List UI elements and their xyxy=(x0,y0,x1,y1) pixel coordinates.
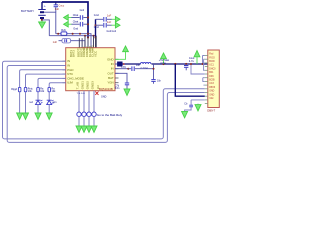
IC right pin names xyxy=(107,57,114,84)
wire left pin 3 to R col1 xyxy=(20,70,66,88)
resistor R2 col2 xyxy=(24,87,33,112)
svg-text:UC3: UC3 xyxy=(209,83,214,85)
inductor L1 xyxy=(140,62,151,70)
ground arrow tp2 xyxy=(81,126,87,132)
svg-text:T_AB: T_AB xyxy=(75,82,79,89)
svg-text:BATTERY: BATTERY xyxy=(21,9,34,13)
connector pin labels xyxy=(209,54,216,100)
wire thick drop to connector bottom xyxy=(175,64,205,96)
svg-text:Rxd: Rxd xyxy=(209,54,214,56)
svg-text:BCIB: BCIB xyxy=(209,80,215,82)
svg-text:IN: IN xyxy=(111,67,114,71)
wire main +5V rail xyxy=(152,63,208,65)
connector X1 DB9 body xyxy=(208,50,220,108)
battery B1 xyxy=(21,2,47,21)
svg-text:GND: GND xyxy=(209,94,214,96)
capacitor Cvc xyxy=(151,79,161,83)
wire left pin 1 loop A xyxy=(3,61,205,139)
ground arrow under battery xyxy=(41,21,43,22)
ground arrow tp3 xyxy=(86,126,92,132)
svg-text:BAT: BAT xyxy=(108,76,114,80)
svg-text:T G G G: T G G G xyxy=(77,93,86,95)
svg-text:BAT2: BAT2 xyxy=(72,50,76,57)
svg-text:2.2UH: 2.2UH xyxy=(140,66,147,70)
svg-text:VCC: VCC xyxy=(93,51,97,57)
svg-text:1uF: 1uF xyxy=(107,13,112,17)
power arrow GND left row2 xyxy=(68,23,72,25)
no-connect X pin xyxy=(95,92,98,95)
svg-text:Gnd: Gnd xyxy=(112,30,117,33)
wire top rail VBAT xyxy=(42,2,88,38)
svg-text:Rpgd: Rpgd xyxy=(11,88,17,91)
capacitor Cbat2 xyxy=(71,20,88,31)
connector pin stubs xyxy=(205,56,208,104)
ground arrow col4 xyxy=(46,113,52,119)
bus2 xyxy=(95,19,97,37)
power arrow right row2 xyxy=(112,24,116,26)
diode D3 xyxy=(115,63,118,65)
wire connector row 62.9 xyxy=(203,63,206,64)
svg-text:1uF: 1uF xyxy=(107,20,112,24)
ground arrow col3 xyxy=(35,113,41,119)
node row2 xyxy=(49,35,96,37)
wire connector rows 77.7 81.4 xyxy=(203,78,205,82)
svg-text:BCID: BCID xyxy=(209,61,215,63)
wire connector aux vertical 2 xyxy=(204,59,205,70)
op IC U1 BQ51013B body xyxy=(66,48,115,91)
svg-text:Vdd: Vdd xyxy=(209,98,214,100)
svg-text:Cbat: Cbat xyxy=(73,20,79,24)
svg-text:IN: IN xyxy=(111,62,114,66)
wire connector aux vertical 1 xyxy=(203,56,205,65)
svg-text:Cvcc: Cvcc xyxy=(58,3,64,7)
svg-text:4.7u: 4.7u xyxy=(189,59,195,63)
ground arrow tp4 xyxy=(91,126,97,132)
wire battery tap to C9 column xyxy=(44,12,56,34)
wire C7d row xyxy=(115,73,127,82)
svg-text:OUT: OUT xyxy=(107,71,113,75)
node row1 xyxy=(56,34,91,48)
svg-text:BF1: BF1 xyxy=(209,72,214,74)
svg-text:YGN: YGN xyxy=(107,81,113,85)
ground arrow G2 xyxy=(197,103,199,106)
svg-text:GND3: GND3 xyxy=(90,81,94,89)
svg-text:Gnd: Gnd xyxy=(94,25,99,29)
svg-text:5.6n: 5.6n xyxy=(115,87,120,90)
power arrow at Cout xyxy=(196,57,198,64)
wire D3 to L1 xyxy=(122,63,140,65)
capacitor Cvb xyxy=(53,39,85,48)
svg-text:ILIM: ILIM xyxy=(67,81,73,85)
LED D1 xyxy=(29,100,42,113)
wire 10n row xyxy=(115,68,128,70)
resistor R4 col4 xyxy=(48,87,56,99)
svg-text:Gnd: Gnd xyxy=(94,13,99,17)
test point TP2 xyxy=(82,112,86,116)
svg-text:FIGO: FIGO xyxy=(209,57,215,59)
power arrow VBAT left row1 xyxy=(68,17,72,19)
svg-text:BQ51013B: BQ51013B xyxy=(99,87,113,91)
IC left pin names xyxy=(67,59,84,84)
wire connector aux vertical 3 xyxy=(191,64,205,74)
ground arrow col1 xyxy=(17,113,23,119)
svg-text:0.5A: 0.5A xyxy=(160,61,166,65)
svg-text:DB9-T: DB9-T xyxy=(207,109,215,113)
wire bottom pins to test points xyxy=(79,91,94,112)
wire left pin 5 to R col3 xyxy=(38,78,66,87)
wire drop to Cvc xyxy=(153,64,155,79)
ground arrow G1 xyxy=(182,111,188,117)
svg-text:GND2: GND2 xyxy=(85,81,89,89)
svg-text:Go to the Batt Rely: Go to the Batt Rely xyxy=(97,113,123,117)
svg-text:10n: 10n xyxy=(157,79,162,82)
LED D2 xyxy=(47,100,57,113)
wire connector row 85.1 stub xyxy=(204,84,205,86)
wire battery minus right then down xyxy=(42,20,49,36)
wire top pin stubs xyxy=(78,38,80,48)
wire left pin 2 loop B xyxy=(7,66,205,143)
IC bottom pin names (rotated) xyxy=(75,81,100,89)
svg-text:UC1: UC1 xyxy=(209,65,214,67)
test point TP4 xyxy=(92,112,96,116)
power arrow +5V max xyxy=(163,59,165,65)
svg-text:GND: GND xyxy=(107,57,113,61)
svg-text:FBO3: FBO3 xyxy=(209,87,216,89)
capacitor Cbat1 xyxy=(71,13,88,20)
wire testpoints to ground xyxy=(79,116,94,125)
resistor Rvb xyxy=(61,28,67,35)
IC top pin names (rotated) xyxy=(69,45,98,57)
svg-text:GND: GND xyxy=(101,96,107,99)
ground arrow under C7d xyxy=(124,89,130,95)
power arrow +5V at IC right pin1 xyxy=(115,52,126,60)
ground arrow tp1 xyxy=(76,126,82,132)
svg-text:DF9: DF9 xyxy=(209,76,214,78)
ground arrow col2 xyxy=(23,113,29,119)
resistor R1 col1 xyxy=(11,87,21,112)
capacitor C10n xyxy=(128,64,153,71)
svg-text:1uF: 1uF xyxy=(55,7,60,11)
IC right pin stubs xyxy=(115,59,119,82)
capacitor Cb bottom right xyxy=(184,100,205,112)
svg-text:GND: GND xyxy=(209,91,214,93)
capacitor Cout xyxy=(184,56,195,70)
svg-text:Gnd: Gnd xyxy=(73,26,78,30)
capacitor C7d xyxy=(115,83,130,90)
power arrow right row1 xyxy=(112,18,116,20)
capacitor C1d xyxy=(94,13,112,21)
svg-text:1uF: 1uF xyxy=(53,40,58,44)
wire left pin 4 to R col2 xyxy=(26,74,66,87)
resistor R3 col3 xyxy=(37,87,45,99)
IC left pin stubs xyxy=(63,61,66,82)
test point TP3 xyxy=(87,112,91,116)
test point TP1 xyxy=(77,112,81,116)
svg-text:GND1: GND1 xyxy=(80,81,84,89)
svg-text:10n: 10n xyxy=(136,64,141,67)
svg-text:Cbat: Cbat xyxy=(73,13,79,17)
capacitor C2d xyxy=(94,20,112,29)
junction battery minus xyxy=(41,19,43,21)
svg-text:3.3V: 3.3V xyxy=(121,66,126,69)
wire left pin 6 to R col4 xyxy=(49,83,65,88)
svg-text:DHC0: DHC0 xyxy=(209,68,216,70)
svg-text:Gnd: Gnd xyxy=(80,9,85,12)
capacitor C9 xyxy=(54,2,65,12)
